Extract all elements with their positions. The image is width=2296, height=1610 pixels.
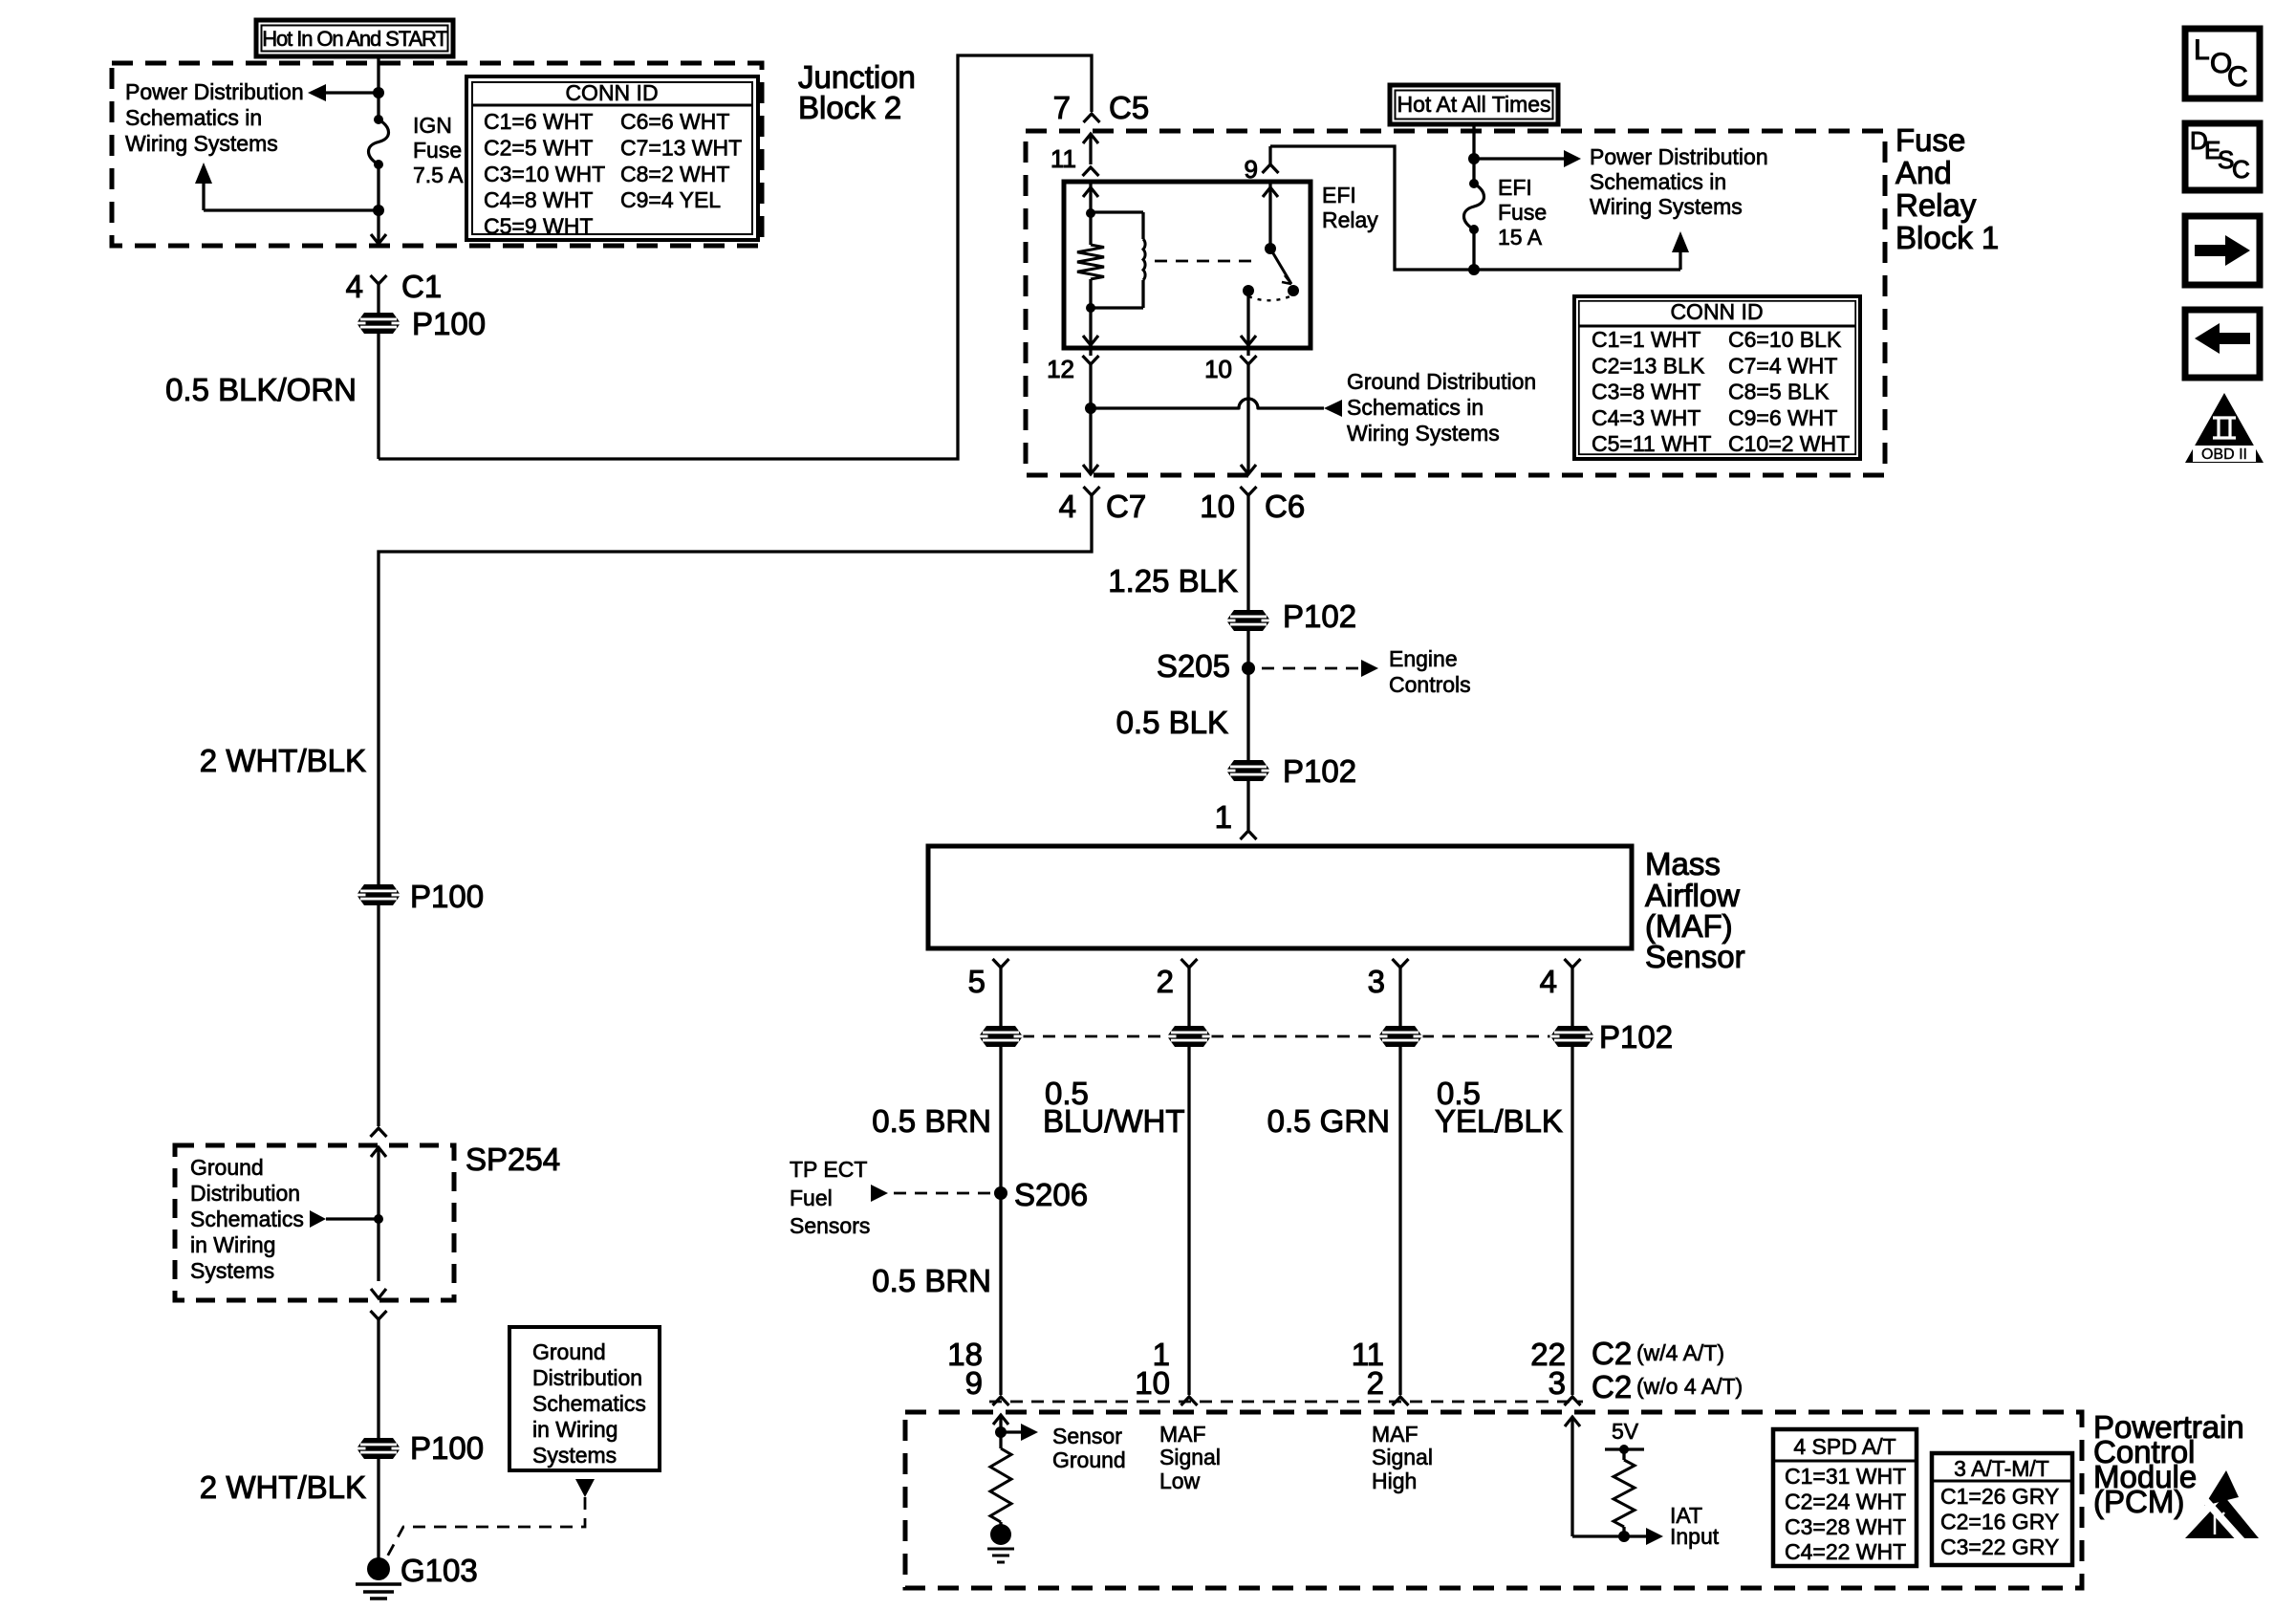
svg-text:Ground: Ground bbox=[532, 1339, 606, 1364]
svg-text:2: 2 bbox=[1157, 964, 1174, 999]
svg-text:Schematics: Schematics bbox=[532, 1391, 646, 1416]
svg-text:P102: P102 bbox=[1283, 753, 1356, 789]
svg-text:Distribution: Distribution bbox=[190, 1181, 300, 1206]
svg-text:C2=16 GRY: C2=16 GRY bbox=[1940, 1509, 2059, 1534]
svg-text:Fuse: Fuse bbox=[1498, 200, 1547, 225]
svg-text:Sensor: Sensor bbox=[1052, 1424, 1122, 1448]
svg-text:7.5 A: 7.5 A bbox=[413, 163, 464, 187]
svg-text:CONN ID: CONN ID bbox=[565, 80, 658, 105]
svg-text:YEL/BLK: YEL/BLK bbox=[1435, 1103, 1563, 1139]
svg-text:0.5 BRN: 0.5 BRN bbox=[872, 1263, 991, 1298]
svg-text:Block 1: Block 1 bbox=[1895, 220, 1999, 255]
svg-text:2 WHT/BLK: 2 WHT/BLK bbox=[200, 1469, 366, 1505]
svg-text:C7: C7 bbox=[1106, 489, 1146, 524]
svg-text:Hot In On And START: Hot In On And START bbox=[262, 27, 447, 51]
svg-text:Controls: Controls bbox=[1389, 672, 1471, 697]
svg-text:EFI: EFI bbox=[1498, 175, 1532, 200]
svg-text:C2: C2 bbox=[1592, 1336, 1632, 1371]
svg-text:TP ECT: TP ECT bbox=[790, 1157, 867, 1182]
svg-text:C1=6 WHT: C1=6 WHT bbox=[484, 109, 593, 134]
svg-text:C: C bbox=[2232, 155, 2250, 184]
svg-text:Schematics: Schematics bbox=[190, 1207, 304, 1231]
svg-text:C3=22 GRY: C3=22 GRY bbox=[1940, 1534, 2059, 1559]
svg-text:High: High bbox=[1372, 1469, 1417, 1493]
svg-text:C1=31 WHT: C1=31 WHT bbox=[1785, 1464, 1906, 1489]
svg-text:Power Distribution: Power Distribution bbox=[125, 79, 304, 104]
svg-text:Hot At All Times: Hot At All Times bbox=[1397, 92, 1550, 117]
svg-text:10: 10 bbox=[1200, 489, 1235, 524]
svg-text:10: 10 bbox=[1204, 355, 1232, 383]
svg-text:(w/4 A/T): (w/4 A/T) bbox=[1636, 1340, 1724, 1365]
svg-text:C9=4 YEL: C9=4 YEL bbox=[620, 187, 721, 212]
svg-text:C6=10 BLK: C6=10 BLK bbox=[1728, 327, 1842, 352]
svg-text:(PCM): (PCM) bbox=[2093, 1484, 2184, 1519]
svg-text:9: 9 bbox=[965, 1365, 983, 1401]
svg-text:3: 3 bbox=[1549, 1365, 1566, 1401]
svg-text:Fuel: Fuel bbox=[790, 1186, 833, 1210]
svg-text:Schematics in: Schematics in bbox=[1347, 395, 1484, 420]
svg-text:Low: Low bbox=[1159, 1469, 1201, 1493]
svg-text:1.25 BLK: 1.25 BLK bbox=[1108, 563, 1238, 598]
svg-text:4: 4 bbox=[1059, 489, 1076, 524]
svg-text:P102: P102 bbox=[1283, 598, 1356, 634]
svg-text:C2: C2 bbox=[1592, 1369, 1632, 1404]
svg-text:C4=3 WHT: C4=3 WHT bbox=[1592, 405, 1700, 430]
svg-text:G103: G103 bbox=[401, 1553, 478, 1588]
svg-text:0.5 BLK: 0.5 BLK bbox=[1116, 705, 1228, 740]
svg-text:4: 4 bbox=[1540, 964, 1557, 999]
svg-text:C1=1 WHT: C1=1 WHT bbox=[1592, 327, 1700, 352]
svg-text:10: 10 bbox=[1135, 1365, 1170, 1401]
svg-text:C5=11 WHT: C5=11 WHT bbox=[1592, 431, 1711, 456]
svg-text:Signal: Signal bbox=[1372, 1445, 1433, 1469]
svg-text:C7=13 WHT: C7=13 WHT bbox=[620, 135, 742, 160]
svg-text:C10=2 WHT: C10=2 WHT bbox=[1728, 431, 1850, 456]
svg-text:0.5 BLK/ORN: 0.5 BLK/ORN bbox=[165, 372, 357, 407]
svg-text:C1: C1 bbox=[401, 269, 442, 304]
svg-text:CONN ID: CONN ID bbox=[1670, 299, 1763, 324]
svg-text:2: 2 bbox=[1367, 1365, 1384, 1401]
svg-text:S206: S206 bbox=[1014, 1177, 1088, 1212]
svg-text:C4=8 WHT: C4=8 WHT bbox=[484, 187, 593, 212]
svg-text:2 WHT/BLK: 2 WHT/BLK bbox=[200, 743, 366, 778]
svg-text:C3=10 WHT: C3=10 WHT bbox=[484, 162, 605, 186]
svg-text:Distribution: Distribution bbox=[532, 1365, 642, 1390]
svg-text:BLU/WHT: BLU/WHT bbox=[1043, 1103, 1185, 1139]
svg-text:MAF: MAF bbox=[1372, 1422, 1419, 1447]
svg-text:C3=8 WHT: C3=8 WHT bbox=[1592, 380, 1700, 404]
svg-text:And: And bbox=[1895, 155, 1952, 190]
svg-text:Systems: Systems bbox=[190, 1258, 274, 1283]
svg-text:4 SPD A/T: 4 SPD A/T bbox=[1793, 1434, 1895, 1459]
svg-text:C5: C5 bbox=[1109, 90, 1149, 125]
svg-text:0.5 GRN: 0.5 GRN bbox=[1267, 1103, 1390, 1139]
svg-text:C: C bbox=[2227, 61, 2248, 93]
svg-text:1: 1 bbox=[1215, 799, 1232, 835]
svg-text:Mass: Mass bbox=[1645, 846, 1721, 881]
svg-text:C8=2 WHT: C8=2 WHT bbox=[620, 162, 729, 186]
svg-text:(w/o 4 A/T): (w/o 4 A/T) bbox=[1636, 1374, 1743, 1399]
svg-text:Wiring Systems: Wiring Systems bbox=[1347, 421, 1500, 446]
svg-text:P100: P100 bbox=[410, 879, 484, 914]
svg-text:3 A/T-M/T: 3 A/T-M/T bbox=[1954, 1456, 2049, 1481]
svg-text:Block 2: Block 2 bbox=[798, 90, 901, 125]
svg-text:P102: P102 bbox=[1599, 1019, 1673, 1055]
svg-text:5V: 5V bbox=[1612, 1419, 1639, 1444]
svg-text:Systems: Systems bbox=[532, 1443, 617, 1468]
svg-text:C1=26 GRY: C1=26 GRY bbox=[1940, 1484, 2059, 1509]
svg-text:OBD II: OBD II bbox=[2201, 446, 2247, 463]
svg-text:3: 3 bbox=[1368, 964, 1385, 999]
svg-text:0.5 BRN: 0.5 BRN bbox=[872, 1103, 991, 1139]
svg-text:P100: P100 bbox=[412, 306, 486, 341]
svg-text:C3=28 WHT: C3=28 WHT bbox=[1785, 1514, 1906, 1539]
svg-text:7: 7 bbox=[1053, 90, 1071, 125]
svg-text:Wiring Systems: Wiring Systems bbox=[125, 131, 278, 156]
svg-text:L: L bbox=[2194, 34, 2210, 66]
svg-text:in Wiring: in Wiring bbox=[190, 1232, 275, 1257]
svg-text:5: 5 bbox=[968, 964, 986, 999]
svg-text:Schematics in: Schematics in bbox=[125, 105, 262, 130]
svg-text:C4=22 WHT: C4=22 WHT bbox=[1785, 1539, 1906, 1564]
svg-text:Ground Distribution: Ground Distribution bbox=[1347, 369, 1536, 394]
svg-text:C5=9 WHT: C5=9 WHT bbox=[484, 214, 593, 239]
svg-text:C2=5 WHT: C2=5 WHT bbox=[484, 135, 593, 160]
svg-text:C7=4 WHT: C7=4 WHT bbox=[1728, 353, 1837, 378]
svg-text:in Wiring: in Wiring bbox=[532, 1417, 617, 1442]
svg-text:C8=5 BLK: C8=5 BLK bbox=[1728, 380, 1830, 404]
svg-text:Sensors: Sensors bbox=[790, 1213, 870, 1238]
svg-text:C2=24 WHT: C2=24 WHT bbox=[1785, 1489, 1906, 1513]
svg-text:C2=13 BLK: C2=13 BLK bbox=[1592, 353, 1705, 378]
svg-text:C6=6 WHT: C6=6 WHT bbox=[620, 109, 729, 134]
svg-text:Sensor: Sensor bbox=[1645, 939, 1745, 974]
svg-text:Relay: Relay bbox=[1895, 187, 1977, 223]
svg-text:EFI: EFI bbox=[1322, 183, 1356, 207]
svg-text:S205: S205 bbox=[1157, 648, 1230, 684]
svg-text:Fuse: Fuse bbox=[413, 138, 462, 163]
svg-text:Relay: Relay bbox=[1322, 207, 1378, 232]
svg-text:Input: Input bbox=[1670, 1524, 1720, 1549]
svg-text:C9=6 WHT: C9=6 WHT bbox=[1728, 405, 1837, 430]
svg-text:15 A: 15 A bbox=[1498, 225, 1543, 250]
svg-text:SP254: SP254 bbox=[466, 1142, 560, 1177]
svg-text:IGN: IGN bbox=[413, 113, 452, 138]
svg-text:Wiring Systems: Wiring Systems bbox=[1590, 194, 1743, 219]
svg-text:Power Distribution: Power Distribution bbox=[1590, 144, 1768, 169]
svg-text:MAF: MAF bbox=[1159, 1422, 1206, 1447]
svg-text:12: 12 bbox=[1047, 355, 1074, 383]
svg-text:P100: P100 bbox=[410, 1430, 484, 1466]
svg-text:Schematics in: Schematics in bbox=[1590, 169, 1726, 194]
svg-text:9: 9 bbox=[1245, 155, 1258, 184]
svg-text:Signal: Signal bbox=[1159, 1445, 1221, 1469]
svg-text:Fuse: Fuse bbox=[1895, 122, 1965, 158]
svg-text:C6: C6 bbox=[1265, 489, 1305, 524]
svg-text:11: 11 bbox=[1051, 144, 1076, 173]
svg-text:Ground: Ground bbox=[1052, 1447, 1126, 1472]
svg-text:Engine: Engine bbox=[1389, 646, 1458, 671]
svg-text:4: 4 bbox=[346, 269, 363, 304]
svg-text:Ground: Ground bbox=[190, 1155, 264, 1180]
